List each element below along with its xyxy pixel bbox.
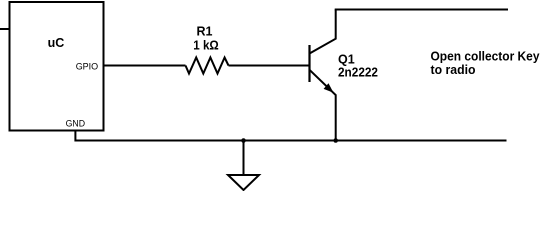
transistor Q1 emitter arrowhead	[324, 83, 334, 93]
wire: top rail open collector	[335, 9, 508, 11]
svg-text:GPIO: GPIO	[76, 61, 99, 72]
wire: GPIO to resistor R1	[104, 65, 186, 67]
wire: bottom ground rail	[75, 140, 506, 142]
svg-text:Q1: Q1	[338, 53, 355, 67]
resistor R1 zigzag	[186, 58, 229, 74]
junction node at emitter	[333, 138, 338, 143]
transistor Q1 collector line up to rail	[310, 10, 336, 54]
transistor Q1 base bar	[308, 45, 310, 82]
ground symbol	[228, 175, 259, 190]
junction node at ground symbol	[241, 138, 246, 143]
wire: ground stem	[243, 141, 245, 176]
wire: resistor to transistor base	[229, 65, 310, 67]
svg-text:1 kΩ: 1 kΩ	[193, 38, 219, 52]
wire: left stub into uC	[0, 28, 10, 30]
svg-text:2n2222: 2n2222	[338, 66, 378, 80]
svg-text:Open collector Key: Open collector Key	[431, 50, 540, 64]
svg-text:uC: uC	[48, 36, 65, 50]
svg-text:R1: R1	[197, 25, 213, 39]
wire: GND pin drop from uC	[74, 131, 76, 142]
microcontroller U1 box (uC)	[10, 2, 104, 131]
transistor Q1 emitter line	[310, 70, 336, 141]
svg-text:to radio: to radio	[431, 63, 476, 77]
svg-text:GND: GND	[66, 119, 86, 130]
